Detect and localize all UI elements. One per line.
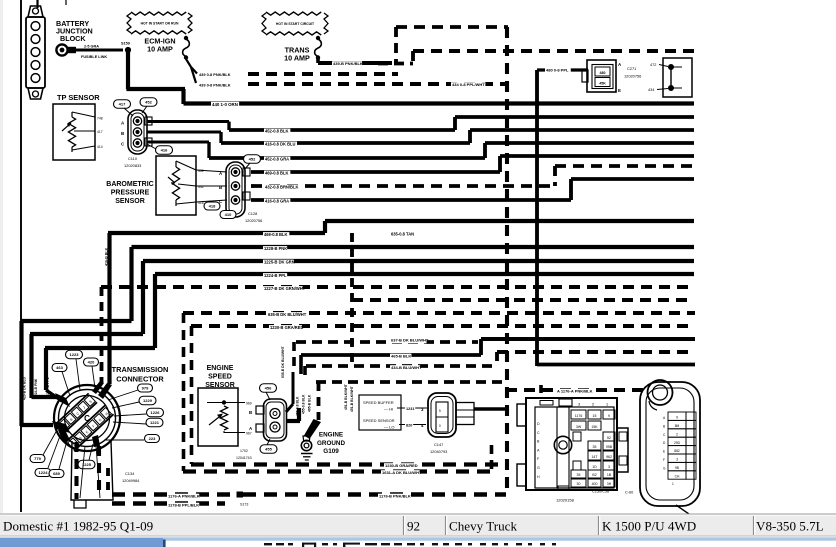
svg-text:452: 452 — [249, 157, 256, 162]
svg-text:1176-B PNK/BLK: 1176-B PNK/BLK — [379, 494, 411, 499]
svg-text:451-B BLK/WHT: 451-B BLK/WHT — [350, 385, 354, 412]
dashed wire 1230 GRA — [191, 325, 695, 331]
transmission connector label — [112, 365, 169, 384]
svg-text:418: 418 — [209, 204, 216, 209]
svg-text:PRESSURE: PRESSURE — [111, 190, 150, 197]
wire 469 BLK from C128-A — [251, 156, 694, 176]
svg-text:HOT IN START OR RUN: HOT IN START OR RUN — [141, 22, 179, 26]
svg-text:465-B BLK: 465-B BLK — [308, 394, 312, 412]
svg-text:455: 455 — [265, 447, 272, 452]
svg-text:30: 30 — [577, 482, 581, 486]
svg-text:9: 9 — [608, 414, 610, 418]
svg-text:1228-B PNK: 1228-B PNK — [264, 246, 287, 251]
svg-text:— LO: — LO — [384, 425, 394, 430]
svg-text:12049984: 12049984 — [122, 478, 140, 483]
wire stub top-left — [36, 0, 38, 8]
svg-text:12020756: 12020756 — [245, 218, 262, 223]
svg-text:1226: 1226 — [151, 410, 161, 415]
svg-text:456: 456 — [265, 386, 272, 391]
svg-text:410: 410 — [225, 212, 232, 217]
dashed wires 1230 1631 bottom pair — [183, 463, 506, 476]
svg-text:S173: S173 — [240, 503, 248, 507]
svg-text:35: 35 — [593, 445, 597, 449]
fuse TRANS 10 AMP label — [284, 46, 310, 63]
svg-text:635-B DK BLU/WHT: 635-B DK BLU/WHT — [268, 312, 307, 317]
wire 432 BRN/BLK from C128-B dashed — [251, 166, 694, 190]
svg-text:1702: 1702 — [240, 449, 248, 453]
svg-text:434: 434 — [648, 88, 654, 92]
svg-text:452-0.8 BLK: 452-0.8 BLK — [265, 129, 288, 134]
svg-text:0: 0 — [439, 424, 441, 428]
battery junction block label — [56, 19, 93, 43]
svg-text:G109: G109 — [323, 448, 339, 455]
status bar — [0, 514, 836, 537]
svg-text:C271: C271 — [627, 66, 636, 71]
connector C230 bolt — [554, 407, 571, 488]
svg-text:12020158: 12020158 — [556, 498, 575, 503]
fusible link wire to S159 — [76, 45, 123, 60]
svg-text:1: 1 — [606, 403, 608, 407]
svg-text:1221: 1221 — [150, 420, 160, 425]
svg-text:480 0-8 PPL: 480 0-8 PPL — [546, 68, 569, 73]
svg-text:456-0.8 BLK: 456-0.8 BLK — [296, 396, 300, 416]
svg-text:414: 414 — [97, 145, 103, 149]
svg-text:748: 748 — [97, 117, 103, 121]
svg-text:967: 967 — [246, 432, 252, 436]
bus wire 1227 dashed: down to connector — [101, 286, 694, 383]
wire 637 DK BLU/WHT dashed-to-solid — [294, 338, 695, 373]
svg-text:8M: 8M — [675, 424, 680, 428]
svg-text:416-0.8 DK BLU: 416-0.8 DK BLU — [265, 142, 296, 147]
battery junction block — [26, 6, 45, 99]
svg-text:1225-B DK GRN: 1225-B DK GRN — [264, 260, 295, 265]
svg-text:15: 15 — [593, 414, 597, 418]
svg-text:1176: 1176 — [575, 414, 583, 418]
engine ground G109 label — [317, 432, 345, 456]
svg-text:TRANSMISSION: TRANSMISSION — [112, 365, 169, 374]
connector C110 wire-number ovals 417 452 — [114, 98, 158, 116]
partial text row fragments at bottom — [264, 543, 556, 547]
svg-text:1178-B PPL/BLK: 1178-B PPL/BLK — [168, 503, 199, 508]
svg-text:779: 779 — [34, 456, 41, 461]
bus wire 469 BLK middle: down from stack and right — [108, 221, 694, 384]
dashed wire 1222 right run — [352, 298, 694, 302]
svg-text:1227-B DK GRN/WHT: 1227-B DK GRN/WHT — [264, 286, 306, 291]
svg-text:E: E — [618, 88, 621, 93]
svg-text:3H: 3H — [607, 482, 612, 486]
svg-text:416-B BLK: 416-B BLK — [105, 247, 109, 266]
wire from C147 to trunk — [474, 407, 508, 411]
dashed branch vertical 635 — [350, 233, 354, 366]
svg-text:29D: 29D — [674, 441, 681, 445]
svg-text:1227-B PPL: 1227-B PPL — [46, 377, 50, 396]
connector C128 — [196, 162, 250, 217]
connector C147 — [421, 393, 474, 437]
transmission connector tail — [71, 441, 113, 508]
svg-text:1229: 1229 — [143, 398, 153, 403]
svg-text:420-B DK BLU: 420-B DK BLU — [23, 376, 27, 400]
wire 416 GRA from C128-C — [251, 179, 694, 204]
svg-text:10 AMP: 10 AMP — [284, 54, 310, 63]
svg-text:472: 472 — [650, 63, 656, 67]
svg-text:12041743: 12041743 — [236, 456, 252, 460]
svg-text:452: 452 — [198, 169, 204, 173]
svg-text:416-0.8 GRA: 416-0.8 GRA — [265, 199, 289, 204]
svg-text:C: C — [84, 414, 90, 423]
svg-text:B: B — [249, 410, 252, 415]
transmission connector C134 rings — [54, 385, 120, 451]
svg-text:2: 2 — [676, 432, 678, 436]
svg-text:635-B DK BLU/WHT: 635-B DK BLU/WHT — [281, 345, 285, 378]
connector C-60 pin table — [663, 412, 696, 486]
svg-text:TP SENSOR: TP SENSOR — [57, 93, 100, 102]
svg-text:B2: B2 — [592, 473, 596, 477]
svg-text:962: 962 — [606, 455, 612, 459]
svg-text:434 0-8 PPL/WHT: 434 0-8 PPL/WHT — [452, 82, 485, 87]
svg-text:Domestic #1 1982-95 Q1-09: Domestic #1 1982-95 Q1-09 — [3, 519, 154, 534]
svg-text:1631-A DK BLU/WHT: 1631-A DK BLU/WHT — [382, 470, 422, 475]
fuse TRANS — [316, 36, 319, 39]
connector C230 right tab — [617, 428, 628, 472]
connector C271 part number — [624, 66, 641, 79]
svg-text:K 1500 P/U 4WD: K 1500 P/U 4WD — [602, 519, 696, 534]
svg-text:V8-350 5.7L: V8-350 5.7L — [756, 519, 824, 534]
splice S159 — [121, 42, 131, 53]
connector C128 part number — [245, 211, 262, 223]
dashed riser and top dashed run — [396, 27, 508, 63]
connector C230 cell grid — [558, 410, 615, 490]
svg-text:B: B — [219, 185, 222, 190]
bus wire 1228: corner left and down to connector — [21, 246, 695, 426]
svg-text:882: 882 — [674, 449, 680, 453]
svg-text:1: 1 — [672, 482, 674, 486]
wire 452 GRA from C110-C — [147, 142, 694, 162]
svg-text:B: B — [121, 131, 124, 136]
svg-text:417: 417 — [119, 102, 126, 107]
svg-text:FUSIBLE LINK: FUSIBLE LINK — [81, 55, 107, 59]
svg-text:1223: 1223 — [70, 352, 80, 357]
svg-text:12040793: 12040793 — [430, 449, 447, 454]
wire 439 PNK/BLK pair from ECM-IGN fuse — [186, 59, 506, 88]
resistor block at C271 — [648, 58, 692, 97]
svg-text:C110: C110 — [128, 156, 138, 161]
wires from speed buffer to C147 — [397, 406, 427, 428]
svg-text:ENGINE: ENGINE — [207, 365, 234, 372]
svg-text:14T: 14T — [591, 455, 598, 459]
svg-text:1176-A PNK/BLK: 1176-A PNK/BLK — [168, 494, 200, 499]
barometric pressure sensor — [156, 156, 204, 215]
svg-text:5: 5 — [439, 409, 441, 413]
svg-text:F: F — [663, 458, 665, 462]
svg-text:ENGINE: ENGINE — [319, 432, 343, 439]
svg-text:979: 979 — [142, 386, 149, 391]
svg-text:3W: 3W — [576, 425, 582, 429]
long dashed vertical trunk — [505, 27, 509, 494]
connector C230 labels — [556, 490, 633, 503]
svg-text:1224: 1224 — [39, 470, 49, 475]
connector C271 — [582, 60, 622, 93]
barometric pressure sensor label — [106, 181, 153, 205]
svg-text:CONNECTOR: CONNECTOR — [116, 375, 164, 384]
svg-text:45K: 45K — [599, 82, 606, 86]
transmission connector pin strips — [51, 390, 114, 452]
dashed box left borders — [184, 313, 192, 471]
fuse ECM-IGN — [184, 36, 187, 39]
svg-text:452: 452 — [145, 100, 152, 105]
wire 480 PPL to C271 — [537, 68, 588, 367]
transmission connector entry wedges — [52, 381, 112, 447]
svg-text:35: 35 — [577, 473, 581, 477]
TP sensor — [53, 104, 103, 160]
wire 452 BLK from C110-A — [147, 117, 694, 134]
svg-text:12020833: 12020833 — [124, 163, 141, 168]
svg-text:12020756: 12020756 — [624, 74, 641, 79]
svg-text:1230-B GRA/RED: 1230-B GRA/RED — [385, 463, 418, 468]
svg-text:S159: S159 — [121, 42, 130, 46]
svg-text:465-B BLK: 465-B BLK — [391, 354, 411, 359]
svg-text:223: 223 — [149, 436, 156, 441]
page left border line — [20, 0, 22, 512]
svg-text:D: D — [537, 422, 540, 426]
svg-text:1D: 1D — [592, 465, 597, 469]
svg-text:E: E — [663, 450, 665, 454]
svg-text:480: 480 — [600, 71, 606, 75]
svg-text:3: 3 — [608, 465, 610, 469]
svg-text:SPEED SENSOR: SPEED SENSOR — [363, 418, 395, 423]
svg-text:10 AMP: 10 AMP — [147, 45, 173, 54]
svg-text:C147: C147 — [434, 442, 443, 447]
svg-text:463: 463 — [56, 365, 63, 370]
dashed wire 1176 PNK/BLK bottom run — [112, 494, 506, 500]
svg-text:C-60: C-60 — [625, 491, 633, 495]
svg-text:Chevy Truck: Chevy Truck — [449, 519, 517, 534]
svg-text:SPEED BUFFER: SPEED BUFFER — [363, 400, 394, 405]
svg-text:440 1-0 ORN: 440 1-0 ORN — [212, 102, 238, 107]
svg-text:2-5 GRA: 2-5 GRA — [84, 45, 99, 49]
dashed wire 1178 PPL/BLK — [112, 503, 225, 509]
speed buffer box — [359, 395, 401, 430]
svg-text:B: B — [663, 424, 665, 428]
svg-text:432-0.8 BRN/BLK: 432-0.8 BRN/BLK — [265, 185, 298, 190]
svg-text:C230/C58: C230/C58 — [592, 490, 609, 494]
wire 465 BLK — [301, 354, 481, 375]
connector C230 outline — [517, 398, 617, 490]
svg-text:1230-B GRA/RED: 1230-B GRA/RED — [270, 325, 303, 330]
svg-text:469-0.8 BLK: 469-0.8 BLK — [265, 171, 288, 176]
fuse ECM-IGN 10 AMP label — [144, 37, 175, 54]
svg-text:SPEED: SPEED — [208, 374, 232, 381]
speed sensor connector ovals 456 455 — [260, 384, 278, 454]
dashed wire jog to long run — [378, 51, 694, 64]
svg-text:BAROMETRIC: BAROMETRIC — [106, 181, 153, 188]
wire 434 BLU/WHT dashed step — [305, 352, 695, 380]
svg-text:439-B PNK/BLK: 439-B PNK/BLK — [333, 61, 363, 66]
window strip below status bar — [0, 537, 836, 547]
svg-text:HOT IN START CIRCUIT: HOT IN START CIRCUIT — [276, 22, 315, 26]
dashed wire 635 DK BLU/WHT — [183, 312, 695, 318]
svg-text:417: 417 — [97, 130, 103, 134]
wire 416 DK BLU from C110-B — [147, 130, 694, 147]
splice S173 — [237, 492, 249, 507]
svg-text:CH: CH — [675, 474, 680, 478]
svg-text:1B: 1B — [607, 473, 612, 477]
status bar text cells — [3, 519, 824, 534]
bus wire 1224: corner left and down to connector — [45, 273, 694, 401]
svg-text:C: C — [537, 431, 540, 435]
engine speed sensor label — [205, 365, 235, 389]
dashed wire 1176 upper run to C-60 — [506, 385, 645, 398]
hot-in-start-circuit banner — [266, 12, 321, 15]
svg-text:GROUND: GROUND — [317, 440, 345, 447]
connector C147 part number — [430, 442, 447, 454]
svg-text:451-B BLK/WHT: 451-B BLK/WHT — [344, 383, 348, 410]
svg-text:15K: 15K — [591, 425, 598, 429]
svg-text:9: 9 — [676, 416, 678, 420]
engine ground G109 — [301, 436, 313, 460]
svg-text:1224-B PNK: 1224-B PNK — [34, 378, 38, 398]
connector C230 pin letters — [537, 422, 540, 479]
short dashed vertical at box right — [490, 445, 494, 471]
connector C-60 — [640, 380, 700, 516]
svg-text:1231: 1231 — [406, 407, 414, 411]
svg-text:439 0-8 PNK/BLK: 439 0-8 PNK/BLK — [199, 72, 231, 77]
svg-text:969: 969 — [246, 402, 252, 406]
transmission connector wire ovals — [30, 350, 164, 477]
svg-text:95B: 95B — [606, 445, 613, 449]
wire 480 PPL lower run — [537, 363, 695, 367]
svg-text:3: 3 — [676, 458, 678, 462]
svg-text:SENSOR: SENSOR — [115, 198, 145, 205]
dashed wire 451 to engine ground — [304, 382, 506, 439]
svg-text:400: 400 — [592, 482, 598, 486]
hot-in-start-or-run banner — [131, 12, 186, 15]
svg-text:434-B BLU/WHT: 434-B BLU/WHT — [391, 365, 422, 370]
svg-text:635-0.8 TAN: 635-0.8 TAN — [391, 232, 414, 237]
svg-text:C128: C128 — [248, 211, 257, 216]
ring terminal eyelet — [56, 44, 76, 55]
svg-text:52: 52 — [607, 436, 611, 440]
connector C110 — [121, 110, 152, 168]
oval 416 at C110 — [147, 144, 173, 154]
vertical wire labels near speed sensor — [281, 345, 354, 416]
ovals 418 410 at C128 — [204, 202, 236, 219]
engine speed sensor — [198, 388, 252, 460]
wire 440 ORN: S159 down and right — [126, 50, 694, 108]
wire 465 from speed sensor connector — [286, 372, 300, 421]
speed sensor connector — [249, 399, 287, 441]
bus wire 1225: corner left and down to connector — [30, 260, 694, 399]
svg-text:1224-B PPL: 1224-B PPL — [264, 273, 287, 278]
svg-text:92: 92 — [407, 519, 420, 534]
svg-text:439 0-8 PNK/BLK: 439 0-8 PNK/BLK — [199, 83, 231, 88]
svg-text:G: G — [537, 466, 540, 470]
svg-text:A 1176-A PNK/BLK: A 1176-A PNK/BLK — [557, 389, 593, 394]
wire from TRANS fuse to dashed riser — [318, 58, 392, 67]
svg-text:H: H — [537, 475, 540, 479]
svg-text:420: 420 — [88, 360, 95, 365]
svg-text:C134: C134 — [125, 471, 135, 476]
svg-text:— HI: — HI — [384, 407, 393, 412]
svg-text:689: 689 — [53, 471, 60, 476]
oval 452 at C128 — [244, 155, 261, 169]
svg-text:416: 416 — [161, 148, 168, 153]
svg-text:BLOCK: BLOCK — [60, 34, 86, 43]
svg-text:820: 820 — [406, 424, 412, 428]
svg-text:452-0.8 GRA: 452-0.8 GRA — [265, 157, 289, 162]
svg-text:455-0.8 BLK: 455-0.8 BLK — [302, 394, 306, 414]
svg-text:637-B DK BLU/WHT: 637-B DK BLU/WHT — [391, 338, 429, 343]
transmission connector part number — [122, 471, 140, 483]
svg-text:469-0.8 BLK: 469-0.8 BLK — [264, 232, 287, 237]
svg-text:3: 3 — [578, 403, 580, 407]
left vertical wire labels — [23, 376, 51, 400]
svg-text:2: 2 — [592, 403, 594, 407]
